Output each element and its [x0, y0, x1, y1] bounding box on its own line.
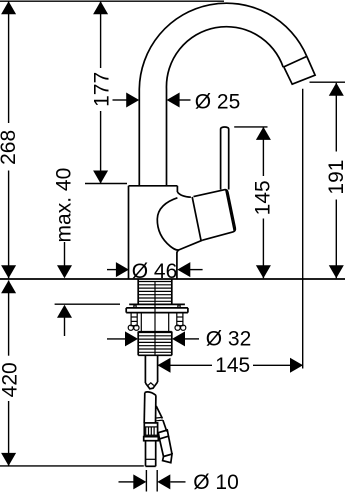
- dimension Ø 10 extension lines: [145, 470, 147, 492]
- extension line from aerator (horizontal, for 191): [310, 81, 345, 83]
- svg-text:max. 40: max. 40: [52, 168, 75, 243]
- angled hose lower: [160, 436, 173, 463]
- spout outer curve: [139, 3, 306, 186]
- upper hose segment: [145, 355, 157, 389]
- svg-text:177: 177: [91, 72, 114, 107]
- dimension Ø 32: [107, 328, 251, 351]
- svg-text:268: 268: [0, 130, 20, 165]
- lower hose (straight): [144, 392, 156, 423]
- dimension 145 horizontal: [158, 354, 304, 377]
- extension line from aerator (vertical, for 145): [302, 89, 304, 369]
- shank center line: [154, 281, 156, 355]
- mounting shank lower threads: [138, 332, 172, 356]
- straight hose lower: [146, 441, 156, 467]
- dimension max. 40: [52, 168, 75, 336]
- bottom reference line: [0, 465, 144, 467]
- wing nuts: [128, 325, 186, 330]
- extension line below deck (flange top level): [55, 303, 120, 305]
- svg-text:191: 191: [325, 160, 345, 195]
- spout inner curve: [166, 27, 283, 186]
- mounting shank upper threads: [138, 279, 172, 304]
- faucet body: [129, 186, 203, 279]
- shank mid section: [141, 313, 168, 332]
- lever rod: [221, 127, 229, 189]
- aerator tip: [284, 56, 315, 84]
- angled hose band: [158, 430, 168, 439]
- dimension Ø 10: [119, 471, 239, 492]
- dimension 268: [0, 1, 20, 278]
- dimension 145 vertical: [251, 127, 274, 278]
- mounting rods: [131, 313, 183, 326]
- handle joint ring band: [192, 197, 201, 240]
- deck reference line: [0, 278, 345, 280]
- handle joint cylinder: [194, 190, 236, 241]
- dimension 420: [0, 280, 21, 466]
- extension line for 145 vertical (handle top): [234, 126, 267, 128]
- svg-text:Ø 10: Ø 10: [193, 471, 239, 492]
- extension line for 177 (top of body): [85, 183, 127, 185]
- hose connector block: [144, 423, 157, 437]
- svg-text:Ø 25: Ø 25: [195, 91, 241, 114]
- dimension 191: [325, 83, 345, 278]
- angled hose upper: [156, 406, 167, 432]
- dimension 177: [91, 1, 114, 183]
- mounting flange: [126, 304, 188, 312]
- svg-text:Ø 32: Ø 32: [206, 328, 252, 351]
- svg-text:420: 420: [0, 362, 21, 397]
- aerator ring line: [284, 56, 307, 67]
- dimension Ø 25: [113, 91, 241, 114]
- hose connector band: [144, 437, 159, 441]
- svg-text:145: 145: [251, 180, 274, 215]
- dimension Ø 46: [107, 260, 203, 283]
- top extension line: [0, 0, 224, 2]
- svg-text:145: 145: [215, 354, 250, 377]
